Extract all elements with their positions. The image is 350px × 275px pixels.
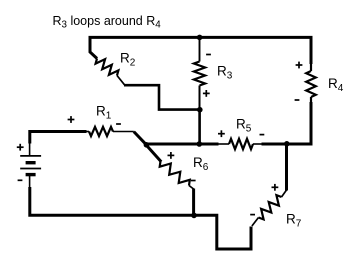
junction dot R3 bottom	[197, 107, 203, 113]
polarity - R5	[260, 134, 265, 136]
wire top rail	[90, 37, 311, 64]
polarity - R6	[191, 180, 196, 182]
battery B1	[20, 143, 41, 188]
polarity + R1	[68, 116, 75, 123]
resistor R4	[306, 63, 316, 103]
wire R3-bottom node to center node	[198, 110, 201, 144]
junction dot center wire / R3 column	[197, 141, 203, 147]
wire R1 to center node (diagonal)	[134, 132, 147, 145]
label R7	[286, 212, 302, 230]
polarity + R7	[272, 184, 279, 191]
wire battery bottom / bottom rail / jog	[30, 187, 251, 249]
resistor R5	[219, 139, 262, 149]
label R1	[96, 104, 112, 122]
polarity + R4	[296, 62, 303, 69]
polarity + R3	[203, 90, 210, 97]
polarity + R6	[168, 152, 175, 159]
label R6	[193, 155, 209, 173]
label R2	[120, 51, 136, 69]
label R5	[236, 117, 252, 135]
junction dot top rail / R3	[197, 35, 203, 41]
polarity + R5	[218, 130, 225, 137]
wire battery top	[30, 132, 87, 144]
wire R5 to R4/R7 node	[262, 143, 313, 146]
polarity - R3	[206, 54, 211, 56]
polarity - battery	[18, 179, 23, 181]
wire R6 down to bottom rail	[192, 189, 195, 216]
junction dot center node	[144, 142, 150, 148]
polarity - R7	[250, 214, 255, 216]
polarity - R1	[116, 123, 121, 125]
wire R4 bottom to node	[286, 102, 311, 144]
title: R3 loops around R4	[53, 14, 162, 31]
resistor R7	[252, 190, 287, 226]
junction dot R6 / bottom rail	[191, 213, 197, 219]
resistor R6	[160, 161, 194, 189]
resistor R2	[96, 59, 125, 85]
polarity - R4	[295, 99, 300, 101]
wire node down to R7	[285, 143, 288, 191]
wire center node to R5	[146, 143, 219, 146]
label R3	[217, 64, 233, 82]
junction dot R4/R7 node	[284, 141, 290, 147]
wire R2 to R3-bottom node	[124, 85, 200, 109]
resistor R3	[194, 38, 205, 110]
resistor R1	[86, 127, 134, 136]
polarity + battery	[17, 144, 24, 151]
label R4	[328, 76, 344, 94]
wire center node to R6 (diagonal)	[146, 145, 161, 162]
